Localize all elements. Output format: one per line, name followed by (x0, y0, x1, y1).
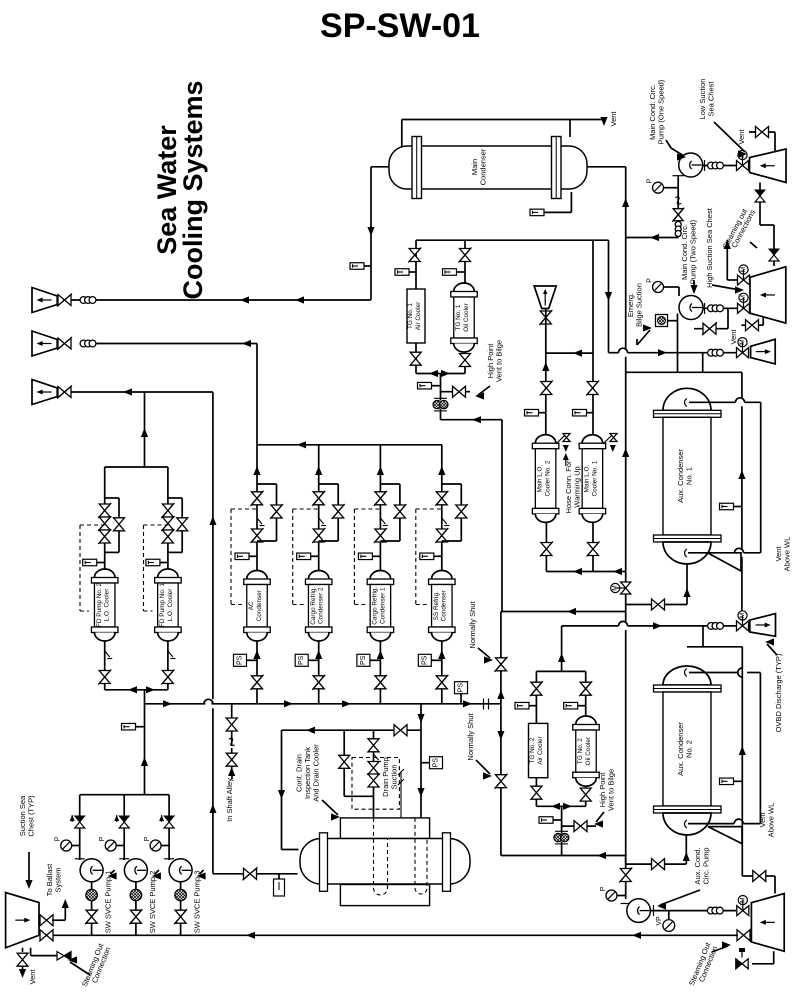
stub tg1 collect (432, 385, 441, 387)
suction valve SW SVCE Pump 1 (86, 910, 97, 923)
instrument box FD Pump No2 LO Cooler (83, 559, 97, 566)
leader emerg bilge (637, 330, 650, 345)
aux2 top curve mark (685, 669, 687, 677)
wire tg2 vent stub (562, 825, 596, 827)
svg-text:Cargo Refrig.: Cargo Refrig. (372, 587, 379, 625)
instrument box tg1 collect (418, 382, 432, 389)
valve tg2 oil bottom (580, 788, 591, 801)
wire pump2 discharge (703, 307, 738, 309)
wire tg1 oil feed (464, 240, 466, 283)
valve tg1 oil top (460, 249, 471, 262)
svg-text:SW SVCE Pump 2: SW SVCE Pump 2 (148, 871, 157, 934)
leader arrow SW SVCE Pump 3 (197, 872, 206, 879)
svg-text:Condenser: Condenser (256, 589, 263, 621)
TG No1 Air Cooler (407, 289, 425, 343)
arrow down vent bl (19, 969, 26, 978)
TG No2 Oil Cooler vessel (576, 716, 597, 724)
wire ovbd branch down (687, 626, 742, 876)
wire drain feed down (420, 704, 422, 818)
leader suction chest (28, 852, 30, 886)
stub Cargo Refrig Condenser 1 (372, 555, 380, 557)
svg-text:Cargo Refrig.: Cargo Refrig. (310, 587, 317, 625)
relief tick Cargo Refrig Condenser 2 (319, 518, 324, 524)
leader SW SVCE Pump 3 (200, 870, 204, 874)
svg-text:No. 2: No. 2 (684, 740, 693, 758)
relief tick SS Refrig Condenser (442, 518, 447, 524)
TG No1 Oil Cooler vessel (454, 283, 475, 292)
wire x213 vertical (212, 392, 214, 874)
FD Pump No1 LO Cooler vessel (158, 569, 179, 578)
svg-text:SW SVCE Pump 1: SW SVCE Pump 1 (104, 871, 113, 934)
valve mlo1 bottom (588, 543, 599, 556)
AC Condenser vessel (247, 571, 268, 580)
wire tg2 drain down (561, 842, 563, 856)
wire tg1 vent stub (441, 391, 471, 393)
check valve SW SVCE Pump 3 (164, 816, 174, 822)
arrow left pump1 line (650, 234, 659, 241)
twin strainer tg1 b (440, 400, 448, 408)
wire FD Pump No2 LO Cooler lower (104, 641, 106, 690)
valve AC Condenser top2 (252, 529, 263, 542)
valve aux2 inlet (652, 859, 665, 870)
valve FD Pump No1 LO Cooler 2 (162, 517, 173, 530)
svg-text:No. 1: No. 1 (684, 467, 693, 485)
bellows pump1 discharge (708, 162, 715, 169)
drain cooler dashed tubes (374, 818, 428, 895)
wire drain bypass (344, 730, 373, 796)
ps stub Cargo Refrig Condenser 2 (308, 659, 319, 661)
svg-text:P: P (647, 179, 654, 184)
leader steaming out (750, 242, 757, 248)
svg-text:Circ. Pump: Circ. Pump (701, 847, 710, 884)
svg-text:Condenser 1: Condenser 1 (379, 587, 386, 624)
arrow down x608 (605, 292, 612, 301)
instrument box mlo2 (525, 409, 539, 416)
svg-text:Main L.O.: Main L.O. (537, 464, 544, 492)
overboard discharge chest 1 (32, 288, 57, 313)
flange tick pump2 d (704, 303, 706, 314)
bypass valve AC Condenser (271, 505, 282, 518)
stub x742 no1 (734, 506, 742, 508)
svg-text:L.O. Cooler: L.O. Cooler (104, 588, 111, 622)
hump aux2 bottom vent (734, 819, 743, 824)
leader arrow pump2 (690, 285, 697, 294)
svg-text:SS Refrig.: SS Refrig. (433, 591, 440, 620)
leader arrow aux pump (657, 902, 666, 909)
leader high suction (712, 285, 740, 290)
bypass valve Cargo Refrig Condenser 1 (394, 505, 405, 518)
flange tick SW SVCE Pump 1 (75, 858, 85, 860)
PS box drain (430, 757, 443, 769)
valve SS Refrig Condenser top2 (436, 529, 447, 542)
steam check valve a (755, 190, 765, 196)
wire overboard line 1 (71, 299, 372, 301)
stub tg1 air (409, 271, 416, 273)
dashed control line FD Pump No1 LO Cooler (144, 525, 168, 611)
squiggle shaft alley (229, 738, 235, 745)
leader arrow drain cooler (331, 813, 340, 820)
motor valve aux chest (737, 906, 749, 916)
leader arrow low suction (738, 150, 747, 157)
arrow up fd riser (141, 757, 148, 766)
valve ovbd3 (58, 387, 71, 398)
PS box header (455, 682, 468, 694)
tick arrow SW SVCE Pump 1 (70, 815, 75, 821)
wire ovbd3 line (71, 391, 213, 393)
svg-text:Vent: Vent (28, 969, 37, 985)
wire tg1 collect (416, 374, 465, 401)
gauge stub pump2 (664, 287, 680, 296)
vp stub (668, 911, 670, 920)
wire trunk A upper (625, 167, 627, 349)
gauge stub SW SVCE Pump 2 (116, 845, 124, 847)
valve drain cooler left (244, 868, 257, 879)
stub AC Condenser (249, 555, 257, 557)
high point vent valve tg2 (574, 821, 587, 832)
motor valve high chest upper (738, 275, 750, 285)
wire trunkB upper (501, 420, 503, 612)
arrow left y855 (597, 852, 606, 859)
svg-text:FD Pump No. 1: FD Pump No. 1 (159, 583, 166, 627)
leader arrow hp tg1 (475, 392, 484, 399)
warming conn mlo1 (603, 434, 613, 444)
discharge sea chest no2 (751, 339, 776, 364)
arrow up tg2 riser (558, 653, 565, 662)
ps stub drain (421, 762, 430, 764)
instrument box tg1 oil (443, 269, 457, 276)
instrument box fd riser (122, 723, 136, 730)
svg-text:P: P (600, 886, 607, 891)
svg-text:Condenser: Condenser (478, 148, 487, 185)
wire steamout br (752, 951, 774, 964)
svg-text:Condenser: Condenser (441, 589, 448, 621)
leader SW SVCE Pump 2 (155, 870, 159, 874)
wire SW SVCE Pump 2 suction (135, 882, 137, 936)
wire tg1 header (416, 240, 609, 353)
relief tick FD Pump No1 LO Cooler (168, 651, 173, 657)
gauge stub pump1 (664, 187, 679, 189)
leader arrow SW SVCE Pump 2 (152, 872, 161, 879)
drain valve 3 (368, 774, 379, 787)
steaming out valve bl (57, 952, 64, 961)
wire high chest vent (741, 316, 763, 325)
bypass valve FD Pump No2 LO Cooler (114, 518, 125, 531)
wire bottom main (43, 934, 738, 936)
twin strainer tg2 a (554, 833, 562, 841)
arrow left y611 (567, 608, 576, 615)
valve FD Pump No2 LO Cooler bottom (99, 671, 110, 684)
svg-text:Above WL: Above WL (766, 803, 775, 838)
arrow down on outlet (367, 227, 374, 236)
valve under funnel (540, 311, 551, 324)
FD Pump No2 LO Cooler vessel (94, 569, 115, 577)
wire vent tail (22, 967, 24, 976)
wire y373 line (626, 353, 742, 373)
Main LO Cooler No1 vessel (582, 435, 603, 443)
wire Cargo Refrig Condenser 2 lower (318, 641, 320, 704)
pump SW SVCE Pump 1 (80, 859, 103, 882)
wire ovbd2 line left (609, 352, 619, 354)
drain valve 2 (368, 762, 379, 775)
dashed control line SS Refrig Condenser (416, 509, 442, 605)
wire y611 line (501, 611, 626, 613)
strainer SW SVCE Pump 3 (175, 889, 187, 901)
pressure gauge pump2 (653, 282, 664, 293)
arrow right header c (342, 700, 351, 707)
wire Cargo Refrig Condenser 1 lower (379, 641, 381, 704)
arrow shaft alley (228, 767, 235, 776)
wire steam crossover (694, 308, 728, 328)
svg-text:PS: PS (421, 655, 428, 665)
svg-text:Vent: Vent (737, 129, 746, 145)
leader hp vent tg2 (596, 812, 604, 822)
tick arrow SW SVCE Pump 3 (159, 815, 164, 821)
wire fd header (105, 466, 168, 468)
valve tg1 air top (409, 249, 420, 262)
hump x742 over aux2 top vent (738, 668, 743, 677)
main cond circ pump two speed (679, 296, 703, 320)
leader steamout br (712, 946, 728, 952)
arrow up stub (724, 240, 731, 249)
svg-text:P: P (144, 836, 151, 841)
arrow right ovbd no1 (653, 622, 662, 629)
leader normally shut 1 (478, 648, 490, 658)
svg-text:Sea Chest: Sea Chest (706, 81, 715, 117)
arrow up ballast (62, 899, 69, 908)
valve FD Pump No2 LO Cooler 3 (99, 530, 110, 543)
aux condenser no2 vessel (663, 666, 711, 685)
valve FD Pump No1 LO Cooler 1 (162, 504, 173, 517)
leader SW SVCE Pump 1 (111, 870, 115, 874)
motor valve high chest lower (738, 303, 750, 313)
wire instrument stub (364, 265, 371, 267)
valve aux1 outlet (652, 599, 665, 610)
svg-text:OVBD Discharge (TYP): OVBD Discharge (TYP) (774, 653, 783, 732)
wire fd bottom header (105, 690, 168, 795)
hump header over x212 (204, 699, 213, 704)
PS box AC Condenser (234, 654, 247, 666)
suction valve SW SVCE Pump 3 (175, 910, 186, 923)
arrow up Cargo Refrig Condenser 2 (315, 466, 322, 475)
arrow right header a (163, 700, 172, 707)
valve mlo2 bottom (541, 543, 552, 556)
relief tick AC Condenser (257, 518, 262, 524)
SS Refrig Condenser vessel (432, 571, 453, 580)
pressure gauge pump1 (653, 182, 664, 193)
svg-text:P: P (99, 836, 106, 841)
valve mlo2 top (541, 382, 552, 395)
wire tg2 collect (536, 806, 585, 833)
arrow left bottom main b (632, 932, 641, 939)
instrument box x742 no1 (720, 503, 734, 510)
svg-text:Above WL: Above WL (782, 537, 791, 572)
arrow down drain feed b (417, 788, 424, 797)
arrow right ovbd2 (658, 349, 667, 356)
relief tick Cargo Refrig Condenser 1 (380, 518, 385, 524)
leader arrow steamout br (722, 941, 731, 948)
wire bottom main right end (750, 934, 752, 936)
check valve SW SVCE Pump 2 (119, 816, 129, 822)
steam crossover valve (703, 323, 716, 334)
vent valve bl (17, 953, 28, 966)
wire SW SVCE Pump 1 discharge (79, 795, 81, 860)
svg-text:Warming Up: Warming Up (572, 466, 581, 507)
valve ovbd2l (58, 338, 71, 349)
valve drain top (394, 725, 407, 736)
wire SS Refrig Condenser upper (441, 445, 443, 571)
wire drain left loop (282, 730, 299, 849)
wire tg2 air out (535, 778, 537, 807)
bellows ovbd2 (708, 349, 715, 356)
leader normally shut 2 (476, 760, 490, 774)
wire tg2 oil out (585, 786, 587, 806)
arrow left ovbd2l (242, 340, 251, 347)
svg-text:SW SVCE Pump 3: SW SVCE Pump 3 (193, 871, 202, 934)
svg-text:Pump (Two Speed): Pump (Two Speed) (688, 219, 697, 284)
wire SW SVCE Pump 3 discharge (168, 795, 170, 860)
svg-text:Oil Cooler: Oil Cooler (585, 736, 592, 765)
wire drain cooler left lower (213, 873, 298, 875)
twin strainer tg2 b (561, 833, 569, 841)
leader arrow emerg bilge (643, 324, 652, 331)
wire tg1 air out (415, 343, 417, 374)
svg-text:PS: PS (237, 655, 244, 665)
wire trunkB lower (500, 704, 502, 855)
strainer stub (668, 320, 678, 322)
valve trunkA lower (620, 869, 631, 882)
valve tg1 air bottom (410, 352, 421, 365)
valve Cargo Refrig Condenser 1 top2 (375, 529, 386, 542)
arrow down trunkB (497, 731, 504, 740)
wire cond top header (257, 444, 442, 446)
svg-text:Vent: Vent (609, 111, 618, 127)
svg-text:Cooling Systems: Cooling Systems (178, 80, 208, 299)
wire aux2 outlet (626, 835, 687, 864)
arrow left drain line (472, 416, 481, 423)
leader ovbd typ (767, 644, 777, 655)
valve AC Condenser bottom (252, 676, 263, 689)
hump aux1 bottom vent (735, 548, 744, 553)
aux sea chest bottom right (751, 894, 784, 952)
valve Cargo Refrig Condenser 1 bottom (375, 676, 386, 689)
stub SS Refrig Condenser (434, 555, 442, 557)
valve Cargo Refrig Condenser 2 top2 (313, 529, 324, 542)
leader hp vent tg1 (478, 386, 490, 395)
valve tg2 air bottom (531, 786, 542, 799)
svg-text:P: P (55, 836, 62, 841)
wire tg2 header (536, 670, 585, 672)
wire ovbd2 line right (628, 352, 750, 354)
valve tg2 air top (531, 682, 542, 695)
ps stub SS Refrig Condenser (431, 659, 442, 661)
valve SS Refrig Condenser top1 (436, 492, 447, 505)
flange tick pump1 d (704, 160, 706, 171)
pump SW SVCE Pump 2 (124, 859, 147, 882)
wire tg1 drain to trunkB (441, 419, 503, 421)
vent valve high chest (746, 320, 759, 331)
svg-text:PS: PS (298, 655, 305, 665)
wire pump1 discharge drop (626, 176, 679, 238)
svg-text:Vent to Bilge: Vent to Bilge (494, 340, 503, 382)
vent funnel aux2 (708, 827, 742, 844)
leader arrow ovbd typ (765, 638, 774, 645)
motor valve trunk A (621, 582, 631, 594)
stub tg2 collect (553, 819, 562, 821)
wire SW SVCE Pump 2 discharge (123, 795, 125, 860)
instrument box FD Pump No1 LO Cooler (146, 559, 160, 566)
relief tick FD Pump No2 LO Cooler (105, 651, 110, 657)
svg-text:Pump (One Speed): Pump (One Speed) (656, 79, 665, 144)
leader arrow pump1 (677, 153, 686, 160)
wire Cargo Refrig Condenser 1 bypass (380, 484, 400, 541)
drain pump suction mark (398, 769, 404, 775)
valve FD Pump No1 LO Cooler 3 (162, 530, 173, 543)
wire condenser left outlet (371, 167, 389, 300)
valve shaft alley 2 (226, 753, 237, 766)
arrow left bottom main a (246, 932, 255, 939)
leader arrow steamout bl (68, 956, 77, 963)
valve FD Pump No2 LO Cooler 2 (99, 517, 110, 530)
wire mlo cross (546, 352, 593, 354)
PS box Cargo Refrig Condenser 1 (357, 654, 370, 666)
instrument box drain left (274, 879, 285, 896)
wire AC Condenser lower (256, 641, 258, 704)
arrow vent down (600, 117, 607, 126)
svg-text:Bilge Suction: Bilge Suction (634, 283, 643, 327)
svg-text:Normally Shut: Normally Shut (468, 601, 477, 649)
wire fd feed (144, 392, 146, 467)
check valve pump1 (673, 209, 683, 221)
svg-text:Cooler No. 1: Cooler No. 1 (591, 460, 598, 496)
svg-text:High Suction Sea Chest: High Suction Sea Chest (705, 207, 714, 288)
svg-text:Cooler No. 2: Cooler No. 2 (545, 460, 552, 496)
Cargo Refrig Condenser 1 vessel (370, 571, 391, 580)
svg-text:Oil Cooler: Oil Cooler (463, 302, 470, 331)
strainer SW SVCE Pump 2 (130, 889, 142, 901)
arrow up x742 no2 (739, 746, 746, 755)
ballast valve (40, 915, 53, 926)
Main LO Cooler No2 vessel (535, 435, 556, 444)
arrow up x213 b (209, 804, 216, 813)
dashed control line Cargo Refrig Condenser 2 (293, 509, 319, 605)
wire FD Pump No1 LO Cooler lower (167, 641, 169, 690)
svg-text:Vent to Bilge: Vent to Bilge (606, 769, 615, 811)
steam check valve b (769, 249, 779, 255)
valve AC Condenser top1 (252, 492, 263, 505)
arrow up Cargo Refrig Condenser 1 (377, 466, 384, 475)
arrow left drain top (306, 727, 315, 734)
valve SS Refrig Condenser bottom (436, 676, 447, 689)
leader aux pump (660, 890, 700, 905)
high point vent valve tg1 (453, 386, 466, 397)
wire FD Pump No1 LO Cooler upper (167, 467, 169, 569)
arrow up trunk A mid (622, 448, 629, 457)
dashed control line AC Condenser (231, 509, 257, 605)
arrow up x742 no1 (738, 470, 745, 479)
overboard discharge chest 2 (32, 331, 57, 356)
leader shaft alley (231, 774, 233, 779)
arrow left tg2 collect (551, 803, 560, 810)
bypass valve SS Refrig Condenser (456, 505, 467, 518)
wire ovbd no1 line (562, 625, 737, 627)
svg-text:PS: PS (433, 758, 440, 768)
flange ticks header (483, 699, 485, 710)
wire chest vent (749, 132, 775, 151)
arrow up AC Condenser (253, 466, 260, 475)
suction sea chest (6, 893, 39, 948)
arrow up aux1 inlet (683, 588, 690, 597)
wire in shaft alley (231, 704, 233, 770)
